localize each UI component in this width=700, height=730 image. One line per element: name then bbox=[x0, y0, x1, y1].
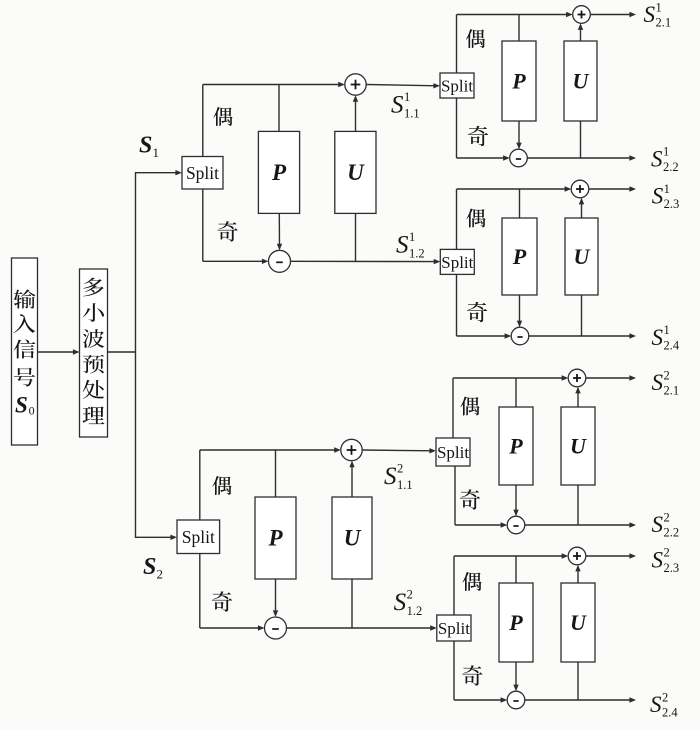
svg-text:Split: Split bbox=[182, 527, 215, 547]
svg-text:2.4: 2.4 bbox=[663, 338, 679, 352]
svg-text:Split: Split bbox=[438, 619, 470, 638]
svg-text:S: S bbox=[391, 91, 404, 118]
svg-text:2.2: 2.2 bbox=[663, 526, 679, 540]
svg-text:2.2: 2.2 bbox=[663, 160, 679, 174]
svg-text:2.3: 2.3 bbox=[663, 561, 679, 575]
svg-text:S: S bbox=[652, 325, 664, 350]
svg-text:S: S bbox=[652, 512, 664, 537]
svg-text:Split: Split bbox=[441, 76, 473, 95]
svg-text:S: S bbox=[396, 232, 409, 259]
svg-text:U: U bbox=[344, 526, 362, 551]
svg-text:P: P bbox=[512, 244, 527, 269]
svg-text:1.1: 1.1 bbox=[404, 106, 420, 120]
svg-text:S: S bbox=[644, 2, 656, 27]
svg-text:1: 1 bbox=[664, 182, 670, 196]
svg-text:1.2: 1.2 bbox=[407, 604, 423, 618]
svg-text:1: 1 bbox=[663, 323, 669, 337]
svg-text:P: P bbox=[511, 68, 526, 93]
svg-text:U: U bbox=[570, 610, 587, 635]
svg-text:Split: Split bbox=[437, 443, 469, 462]
svg-text:1: 1 bbox=[409, 230, 415, 244]
svg-text:S: S bbox=[650, 692, 662, 717]
svg-text:Split: Split bbox=[441, 253, 473, 272]
svg-text:2: 2 bbox=[663, 546, 669, 560]
svg-text:2.1: 2.1 bbox=[655, 16, 671, 30]
svg-text:1: 1 bbox=[663, 145, 669, 159]
svg-text:1.1: 1.1 bbox=[397, 478, 413, 492]
svg-text:S: S bbox=[651, 146, 663, 171]
svg-text:1: 1 bbox=[655, 0, 661, 14]
svg-text:1.2: 1.2 bbox=[409, 247, 425, 261]
svg-text:P: P bbox=[508, 610, 523, 635]
svg-text:P: P bbox=[267, 526, 283, 551]
svg-text:S: S bbox=[652, 184, 664, 209]
svg-text:S: S bbox=[652, 370, 664, 395]
svg-text:1: 1 bbox=[404, 90, 410, 104]
svg-text:P: P bbox=[508, 433, 523, 458]
svg-text:2: 2 bbox=[156, 567, 163, 582]
svg-text:2.1: 2.1 bbox=[663, 384, 679, 398]
svg-text:S: S bbox=[15, 393, 28, 418]
svg-text:U: U bbox=[570, 433, 587, 458]
svg-text:S: S bbox=[652, 547, 664, 572]
svg-text:S: S bbox=[143, 554, 156, 580]
svg-text:2: 2 bbox=[663, 368, 669, 382]
svg-text:2: 2 bbox=[662, 690, 668, 704]
svg-text:2: 2 bbox=[397, 461, 403, 475]
svg-text:2.3: 2.3 bbox=[664, 197, 680, 211]
svg-text:P: P bbox=[271, 160, 287, 185]
svg-text:S: S bbox=[139, 133, 152, 159]
svg-text:S: S bbox=[384, 463, 397, 490]
svg-text:1: 1 bbox=[152, 145, 159, 160]
svg-text:2: 2 bbox=[407, 587, 413, 601]
svg-text:U: U bbox=[347, 160, 365, 185]
svg-text:2: 2 bbox=[663, 510, 669, 524]
svg-text:Split: Split bbox=[186, 163, 219, 183]
svg-text:0: 0 bbox=[29, 404, 35, 418]
svg-text:2.4: 2.4 bbox=[662, 706, 678, 720]
svg-text:U: U bbox=[574, 244, 591, 269]
svg-text:U: U bbox=[573, 68, 590, 93]
svg-text:S: S bbox=[394, 589, 407, 616]
